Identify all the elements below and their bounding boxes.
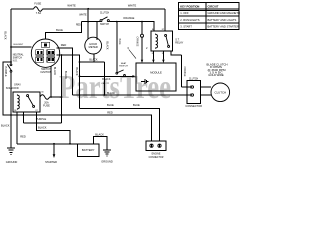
svg-text:FUSE: FUSE [34, 2, 41, 6]
clutch switch S3 [100, 20, 102, 22]
wire white drop to relay [164, 9, 166, 31]
ground battery [103, 150, 111, 156]
svg-text:N.O.: N.O. [13, 61, 18, 63]
svg-text:RED: RED [61, 43, 67, 47]
ignition terminals grid [36, 50, 44, 55]
wire solenoid drop x23.3 [22, 112, 24, 123]
svg-text:BLACK: BLACK [3, 31, 6, 40]
clutch connector box J2 [187, 81, 201, 104]
wire vertical x61.5 [61, 55, 63, 123]
svg-text:GROUND: GROUND [6, 160, 18, 164]
svg-text:PURPLE: PURPLE [4, 66, 7, 76]
svg-text:BLACK: BLACK [95, 132, 104, 136]
svg-text:BLUE: BLUE [56, 28, 63, 32]
wire purple horizontal [23, 122, 61, 124]
engine connector J1 [146, 141, 166, 151]
svg-text:SWITCH: SWITCH [119, 66, 128, 68]
svg-text:RED: RED [76, 24, 81, 26]
wire solenoid drop x17 to battery [16, 112, 18, 144]
wire ignition bottom black [50, 66, 52, 97]
svg-text:CONNECTOR: CONNECTOR [185, 106, 202, 108]
arrows module top [141, 60, 143, 63]
fuse F1 [34, 7, 43, 12]
wire orange top run [82, 22, 155, 31]
svg-text:RELAY: RELAY [175, 41, 183, 44]
svg-text:SWITCH: SWITCH [100, 24, 109, 26]
capacitor in module [141, 79, 149, 84]
svg-text:BATTERY AND LIGHTS: BATTERY AND LIGHTS [208, 18, 237, 22]
arrow starter [53, 154, 56, 158]
hour meter M1 [85, 37, 102, 54]
wire relay to orange drop [171, 51, 182, 87]
wire relay out 2 [162, 51, 164, 60]
svg-text:BLK/WHT: BLK/WHT [14, 44, 24, 46]
seat switch S4 [116, 22, 118, 73]
leader 3 [129, 50, 136, 59]
svg-text:STARTER: STARTER [45, 160, 57, 164]
svg-text:CLUTCH: CLUTCH [100, 13, 110, 15]
svg-text:ORANGE: ORANGE [183, 67, 186, 77]
fuse 20A F2 [40, 95, 62, 100]
wire white drop to hour meter [87, 9, 89, 40]
ground [7, 148, 15, 155]
relay K1 [151, 31, 173, 51]
svg-text:BLACK: BLACK [38, 125, 47, 129]
svg-text:BATTERY: BATTERY [82, 148, 95, 152]
svg-text:ORANGE: ORANGE [136, 37, 139, 47]
svg-text:CIRCUIT: CIRCUIT [208, 4, 219, 8]
wire blue bottom run [80, 108, 160, 141]
svg-text:NEUTRAL: NEUTRAL [13, 54, 24, 57]
wire hour meter bottom [93, 54, 95, 62]
wire left bus black [10, 9, 12, 148]
svg-text:BLACK: BLACK [89, 58, 98, 61]
module box U1 [136, 63, 176, 91]
svg-text:BLACK: BLACK [105, 41, 108, 50]
svg-text:WHITE: WHITE [128, 4, 137, 8]
wire solenoid out x36.7 [37, 112, 70, 144]
svg-text:WHITE: WHITE [67, 4, 76, 8]
svg-text:BLACK: BLACK [53, 67, 56, 76]
neutral switch S2 [10, 64, 12, 66]
svg-text:BLACK: BLACK [1, 123, 10, 127]
svg-text:BLUE: BLUE [107, 103, 114, 107]
svg-text:RED: RED [20, 135, 26, 139]
svg-text:GROUND: GROUND [101, 160, 113, 164]
svg-text:ENGINE: ENGINE [152, 153, 161, 155]
wires clutch connector to clutch [201, 87, 212, 95]
wire battery negative to ground [93, 137, 107, 150]
svg-text:1. OFF: 1. OFF [180, 11, 189, 15]
wire relay out 1 [152, 51, 154, 60]
wire purple left edge / red bottom run [3, 62, 152, 141]
clutch L1 [211, 83, 230, 102]
wire battery feed horizontal [17, 143, 78, 145]
wire hour meter right top [96, 22, 98, 40]
svg-text:PURPLE: PURPLE [36, 117, 47, 121]
svg-text:KEY POSITION: KEY POSITION [180, 4, 199, 8]
svg-text:BATTERY AND STARTER: BATTERY AND STARTER [208, 25, 239, 29]
svg-text:GOLD WIRE: GOLD WIRE [208, 74, 224, 77]
svg-text:FUSE: FUSE [43, 104, 50, 107]
svg-text:IGNITION: IGNITION [40, 71, 51, 74]
wire blue from ignition top [46, 22, 82, 39]
solenoid K2 [13, 92, 40, 112]
wire black y62 [80, 61, 105, 63]
svg-text:SWITCH: SWITCH [13, 58, 22, 60]
key table [179, 2, 240, 29]
wire black into module [80, 75, 133, 77]
svg-text:GROUND AND MAGNETO: GROUND AND MAGNETO [208, 11, 241, 15]
svg-text:MODULE: MODULE [150, 70, 162, 74]
wire red ignition right [56, 48, 72, 95]
ignition terminal top [36, 42, 55, 62]
wire black y95 long [73, 94, 192, 96]
svg-text:BLUE: BLUE [118, 38, 120, 44]
wire top white [11, 8, 165, 10]
svg-text:2. RUN/LIGHTS: 2. RUN/LIGHTS [180, 18, 199, 22]
ignition switch circle [31, 39, 59, 67]
svg-text:RED: RED [107, 110, 113, 114]
svg-text:WHITE: WHITE [79, 14, 87, 16]
svg-text:BLACK: BLACK [75, 67, 78, 76]
wire bullet connector top [141, 22, 143, 35]
wire y55 and x79.5 [56, 55, 79, 108]
svg-text:BLACK: BLACK [107, 92, 116, 95]
svg-text:METER: METER [89, 45, 98, 49]
svg-text:BLACK: BLACK [64, 71, 67, 80]
svg-text:SEAT: SEAT [121, 62, 127, 65]
svg-text:BLUE: BLUE [133, 103, 140, 107]
svg-text:CLUTCH: CLUTCH [189, 78, 199, 80]
svg-text:7.5A: 7.5A [36, 11, 42, 15]
wire starter [53, 144, 55, 155]
svg-text:BLACK: BLACK [102, 78, 111, 81]
wire black x104.3 [103, 62, 105, 95]
wire ignition left [11, 46, 31, 48]
svg-text:CLUTCH: CLUTCH [215, 91, 227, 94]
arrow into module [132, 75, 135, 77]
svg-text:SOLENOID: SOLENOID [6, 87, 19, 90]
battery B1 [78, 144, 100, 157]
svg-text:ORANGE: ORANGE [123, 16, 135, 20]
svg-text:CONNECTOR: CONNECTOR [149, 157, 164, 159]
svg-text:3. START: 3. START [180, 25, 192, 29]
